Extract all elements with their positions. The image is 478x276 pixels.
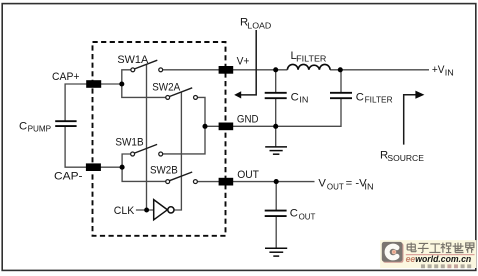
logo icon square bbox=[382, 242, 403, 262]
svg-text:IN: IN bbox=[364, 181, 373, 191]
wire CLK control line to SW1A and SW1B blades bbox=[146, 64, 148, 210]
wire node A up to SW1A left contact bbox=[122, 70, 131, 84]
ground (upper, at GND rail) bbox=[265, 147, 287, 154]
logo chinese title 世 bbox=[453, 243, 464, 253]
wire node B down to SW2B left contact bbox=[122, 167, 166, 181]
node L_FILTER / C_FILTER junction bbox=[338, 67, 343, 72]
wire CAP+ to C_PUMP top and to node A bbox=[65, 84, 122, 121]
wire CLK to inverter input bbox=[136, 209, 154, 211]
wire GND node down to SW1B right contact bbox=[163, 126, 206, 154]
wire C_PUMP bottom to CAP- and node B bbox=[65, 126, 122, 167]
R_LOAD current arrow bbox=[234, 30, 256, 99]
logo icon dot halo bbox=[392, 250, 397, 255]
logo red underline bbox=[406, 254, 475, 255]
wire node A down to SW2A left contact bbox=[122, 84, 166, 97]
node OUT / C_OUT junction bbox=[274, 179, 279, 184]
wire GND rail to upper ground symbol bbox=[275, 126, 277, 146]
wire GND rail through GND terminal to C_FILTER bottom bbox=[205, 98, 341, 126]
eeworld watermark logo bbox=[380, 240, 476, 268]
svg-text:V+: V+ bbox=[237, 56, 250, 68]
svg-text:PUMP: PUMP bbox=[28, 124, 52, 134]
terminal V+ bbox=[219, 66, 234, 74]
svg-text:C: C bbox=[291, 91, 299, 103]
capacitor C_FILTER bbox=[330, 93, 352, 98]
node GND rail / C_IN bottom junction bbox=[273, 124, 278, 129]
logo icon C bbox=[387, 246, 397, 258]
wire OUT node to C_OUT top bbox=[275, 182, 277, 210]
svg-text:IN: IN bbox=[299, 95, 308, 105]
svg-text:SW1B: SW1B bbox=[115, 137, 143, 149]
svg-text:FILTER: FILTER bbox=[365, 95, 393, 105]
logo chinese title 工 bbox=[429, 244, 440, 253]
switch SW1B bbox=[131, 144, 163, 156]
R_SOURCE current arrow bbox=[404, 91, 425, 145]
svg-text:OUT: OUT bbox=[237, 169, 259, 181]
svg-text:CAP-: CAP- bbox=[54, 171, 83, 183]
switch SW2A bbox=[166, 88, 198, 100]
node GND junction bbox=[202, 124, 207, 129]
wire SW2B right contact through OUT terminal to VOUT bbox=[197, 181, 314, 183]
logo icon dot bbox=[393, 251, 396, 254]
svg-text:LOAD: LOAD bbox=[247, 21, 271, 31]
wire inverter output control line to SW2A and SW2B blades bbox=[174, 92, 181, 210]
wire V+ rail to C_IN top bbox=[275, 70, 277, 93]
logo background bbox=[380, 240, 476, 268]
switch SW1A bbox=[131, 60, 163, 72]
node CLK junction bbox=[144, 208, 149, 213]
switch SW2B bbox=[166, 172, 198, 184]
svg-text:eeworld.com.cn: eeworld.com.cn bbox=[406, 254, 472, 264]
node A (CAP+ junction) bbox=[119, 81, 124, 86]
wire C_FILTER top to +VIN rail bbox=[340, 70, 342, 93]
svg-text:OUT: OUT bbox=[299, 211, 316, 221]
wire C_OUT bottom to ground bbox=[275, 217, 277, 248]
svg-text:OUT: OUT bbox=[327, 181, 344, 191]
logo chinese title 子 bbox=[418, 243, 429, 252]
IC boundary dashed box bbox=[93, 42, 226, 236]
svg-text:IN: IN bbox=[445, 68, 454, 78]
logo chinese title 界 bbox=[466, 243, 474, 253]
terminal CAP+ bbox=[86, 80, 101, 88]
capacitor C_PUMP bbox=[55, 121, 76, 126]
node V+ / C_IN junction bbox=[273, 67, 278, 72]
logo icon shadow bbox=[383, 243, 404, 263]
svg-text:+V: +V bbox=[432, 64, 445, 76]
capacitor C_IN bbox=[265, 93, 287, 98]
svg-text:SW2B: SW2B bbox=[150, 165, 178, 177]
inverter U1 bbox=[154, 200, 174, 220]
wire SW1A right contact to V+ terminal and +VIN rail bbox=[163, 69, 288, 71]
svg-text:CLK: CLK bbox=[114, 205, 135, 217]
logo chinese title 程 bbox=[441, 243, 452, 253]
terminal CAP- bbox=[86, 163, 101, 171]
terminal GND bbox=[219, 123, 234, 131]
svg-text:C: C bbox=[356, 91, 364, 103]
logo slogan row bbox=[421, 264, 471, 268]
svg-text:SW2A: SW2A bbox=[152, 82, 180, 94]
svg-text:V: V bbox=[318, 177, 326, 189]
svg-text:C: C bbox=[19, 120, 27, 132]
wire L_FILTER right to +VIN bbox=[330, 69, 429, 71]
node B (CAP- junction) bbox=[120, 165, 125, 170]
svg-text:FILTER: FILTER bbox=[296, 53, 326, 63]
svg-text:CAP+: CAP+ bbox=[52, 71, 80, 83]
svg-text:SOURCE: SOURCE bbox=[387, 153, 424, 163]
svg-text:SW1A: SW1A bbox=[117, 54, 148, 66]
wire node B up to SW1B left contact bbox=[122, 154, 131, 167]
ground (lower, at C_OUT) bbox=[265, 248, 287, 256]
logo chinese title 电 bbox=[407, 243, 416, 252]
inductor L_FILTER bbox=[287, 64, 330, 69]
capacitor C_OUT bbox=[265, 211, 287, 217]
svg-text:C: C bbox=[290, 208, 298, 220]
wire SW2A right contact to GND node bbox=[197, 97, 205, 126]
wire C_IN bottom to GND rail bbox=[275, 99, 277, 127]
terminal OUT bbox=[219, 178, 234, 186]
svg-text:GND: GND bbox=[237, 114, 259, 126]
